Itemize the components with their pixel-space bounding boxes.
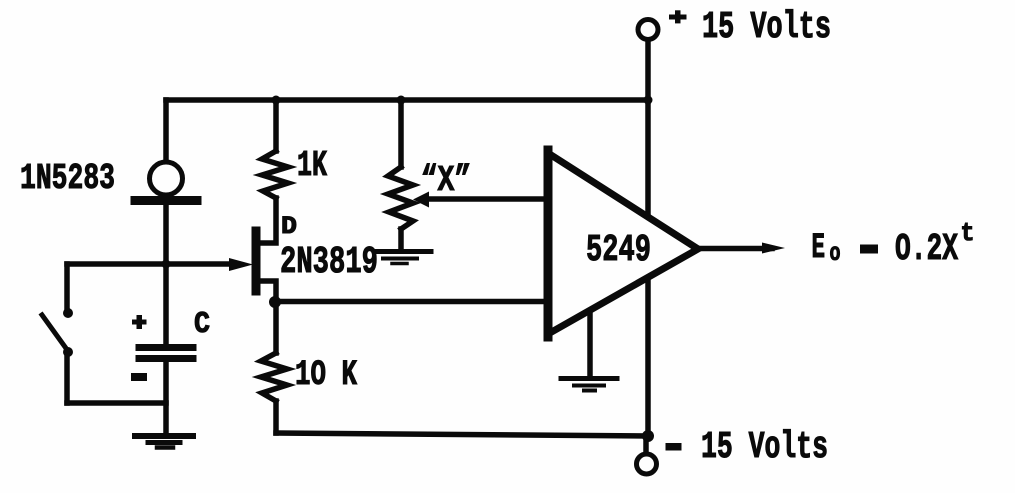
wire 1K top lead [273, 100, 279, 151]
wire gate line to JFET [67, 261, 236, 267]
label - 15 Volts [666, 443, 682, 451]
svg-text:D: D [281, 212, 297, 241]
wire source to op-amp inverting input [275, 299, 548, 305]
wire op-amp ground stub [587, 312, 593, 377]
wire op-amp bottom to -15V terminal [645, 279, 651, 434]
wire top bus from diode branch to +15V vertical [166, 97, 648, 103]
label + (capacitor polarity) [132, 320, 147, 325]
ground below capacitor [135, 436, 193, 448]
wire op-amp output [697, 246, 772, 252]
switch upper contact [63, 308, 73, 318]
wire wiper to op-amp non-inverting input [430, 196, 548, 202]
capacitor C bottom plate [139, 355, 193, 362]
resistor 10K [261, 353, 287, 401]
node top bus junction [644, 96, 653, 105]
capacitor C top plate [139, 344, 193, 351]
svg-text:O.2X: O.2X [895, 228, 958, 271]
node pot top [397, 96, 406, 105]
resistor 1K [262, 151, 288, 198]
ground below potentiometer [376, 252, 431, 264]
wire 10K bottom lead [273, 401, 279, 433]
label + 15 Volts [669, 15, 687, 20]
wire bottom bus to -15V node [276, 433, 648, 436]
switch blade [42, 315, 68, 351]
node source junction [269, 296, 281, 308]
wire pot bottom lead [398, 229, 404, 249]
wire switch bottom to main vertical [67, 400, 166, 406]
wiper arrowhead [413, 192, 429, 208]
label - (capacitor polarity) [131, 373, 147, 381]
wire stem to -15V terminal [643, 441, 649, 453]
switch upper lead [64, 264, 70, 309]
op-amp left edge emphasis [544, 150, 553, 337]
wire 10K top lead [273, 302, 279, 353]
node 1K top [272, 96, 281, 105]
svg-text:5249: 5249 [586, 229, 651, 272]
switch lower lead [64, 352, 70, 403]
svg-text:1K: 1K [297, 145, 327, 186]
svg-text:o: o [830, 239, 841, 268]
transistor 2N3819 channel bar [252, 231, 261, 291]
node gate junction [162, 260, 171, 269]
svg-text:E: E [812, 228, 826, 268]
wire capacitor to ground [163, 362, 169, 433]
gate arrowhead [229, 258, 253, 271]
svg-text:t: t [961, 218, 975, 248]
terminal -15V [637, 454, 657, 474]
svg-text:2N3819: 2N3819 [280, 241, 378, 284]
output arrowhead [762, 243, 785, 254]
wire pot top lead [398, 100, 404, 167]
diode bar [135, 196, 197, 205]
terminal +15V [638, 20, 658, 40]
switch lower contact [63, 347, 73, 357]
potentiometer X element [388, 167, 413, 229]
svg-text:1O K: 1O K [295, 355, 357, 395]
svg-text:“X”: “X” [421, 160, 471, 201]
current regulator diode 1N5283 body [150, 162, 183, 195]
svg-text:15 Volts: 15 Volts [701, 426, 828, 469]
wire JFET source lead [258, 281, 276, 302]
node bottom bus junction [642, 430, 654, 442]
svg-text:15 Volts: 15 Volts [702, 6, 831, 49]
ground below op-amp [561, 379, 617, 391]
svg-text:C: C [194, 307, 210, 342]
wire +15V vertical into op-amp top [645, 43, 651, 216]
wire drop to current-regulator diode [163, 100, 169, 160]
wire 1K to JFET drain [258, 198, 276, 243]
op-amp 5249 triangle [548, 153, 698, 334]
wire diode to capacitor top [163, 205, 169, 344]
svg-text:1N5283: 1N5283 [20, 158, 115, 199]
